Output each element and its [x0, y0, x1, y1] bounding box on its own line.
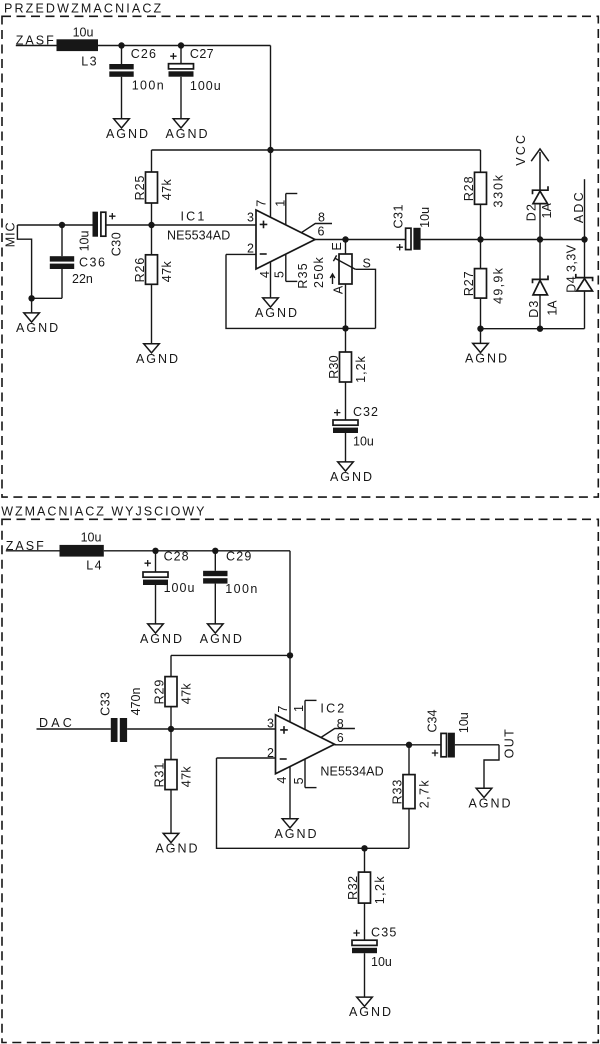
svg-text:IC1: IC1 [181, 209, 207, 223]
svg-text:47k: 47k [180, 683, 194, 705]
svg-text:10u: 10u [371, 955, 392, 969]
IC2 pin 5 [292, 759, 317, 788]
capacitor C32 (electrolytic) [333, 405, 379, 462]
svg-text:10u: 10u [77, 231, 91, 252]
svg-text:22n: 22n [72, 272, 93, 286]
ground AGND under MIC [16, 313, 60, 335]
svg-text:47k: 47k [160, 178, 174, 200]
svg-text:D2: D2 [524, 203, 538, 221]
wire [121, 77, 123, 119]
capacitor C29 [203, 550, 259, 624]
svg-text:8: 8 [337, 717, 344, 731]
svg-text:5: 5 [273, 271, 287, 278]
capacitor C33 [98, 688, 143, 742]
svg-text:10u: 10u [457, 712, 471, 733]
svg-text:R35: R35 [296, 262, 310, 289]
trimmer R35 250k [296, 240, 375, 329]
junction rail / IC2 pin7 [287, 652, 293, 658]
wire ZASF to L3 [16, 45, 57, 47]
svg-text:1: 1 [274, 200, 288, 207]
ground AGND under R27 [465, 343, 509, 365]
svg-text:3: 3 [267, 717, 274, 731]
ground AGND under C32 [330, 462, 374, 484]
wire [539, 295, 541, 329]
wire [285, 254, 287, 281]
svg-text:C26: C26 [131, 47, 157, 61]
svg-text:2: 2 [247, 242, 254, 256]
capacitor C28 (electrolytic) [143, 550, 195, 624]
svg-text:R26: R26 [133, 257, 147, 283]
ground AGND under C28 [140, 624, 184, 646]
resistor R29 [153, 655, 194, 729]
svg-text:6: 6 [318, 225, 325, 239]
wire supply down [289, 551, 291, 656]
svg-text:R30: R30 [327, 355, 341, 379]
wire ZASF to L4 [6, 550, 60, 552]
ground AGND under C35 [349, 997, 393, 1019]
wire OUT jack sleeve [484, 745, 499, 789]
IC1 pin 4 [258, 262, 272, 298]
junction output/R35-E [342, 236, 348, 242]
wire [408, 745, 410, 775]
junction supply rail / IC1 pin7 [267, 147, 273, 153]
svg-text:1,2k: 1,2k [354, 355, 368, 383]
wire [151, 284, 153, 343]
junction D3 anode [537, 326, 543, 332]
wire lower rail [481, 328, 585, 330]
svg-text:C34: C34 [426, 709, 440, 732]
capacitor C36 [50, 225, 107, 298]
resistor R27 [462, 240, 505, 329]
ground AGND under C27 [165, 119, 209, 141]
wire [302, 224, 333, 233]
wire [584, 291, 586, 329]
wire [345, 433, 347, 462]
wire to ground [480, 329, 482, 344]
svg-text:A: A [331, 285, 345, 294]
wire [305, 787, 317, 789]
svg-text:2,7k: 2,7k [418, 779, 432, 808]
resistor R32 [346, 848, 387, 940]
svg-text:C32: C32 [353, 405, 379, 419]
junction R32/feedback [361, 845, 367, 851]
wire [364, 903, 366, 940]
wire IC2 output [335, 744, 442, 746]
wire C34 to OUT [455, 744, 499, 746]
resistor R33 [391, 745, 432, 849]
svg-text:3: 3 [247, 211, 254, 225]
junction at C26 [118, 42, 124, 48]
svg-text:C33: C33 [98, 691, 112, 715]
svg-text:7: 7 [276, 706, 290, 713]
svg-text:C27: C27 [190, 47, 214, 61]
svg-text:ADC: ADC [572, 190, 586, 223]
wire [345, 382, 347, 420]
svg-text:6: 6 [337, 731, 344, 745]
wire [480, 240, 482, 269]
svg-text:10u: 10u [418, 207, 432, 228]
wire [539, 204, 541, 240]
svg-text:NE5534AD: NE5534AD [320, 765, 383, 779]
wire [304, 759, 306, 788]
wire [480, 204, 482, 239]
wire [286, 193, 298, 195]
svg-text:NE5534AD: NE5534AD [167, 229, 230, 243]
wire [584, 240, 586, 278]
svg-text:100u: 100u [190, 79, 222, 93]
capacitor C31 (electrolytic, output coupling) [391, 204, 432, 250]
svg-text:IC2: IC2 [320, 702, 346, 716]
wire [480, 150, 482, 172]
wire [364, 953, 366, 997]
svg-text:100n: 100n [225, 582, 258, 596]
wire horizontal supply rail [152, 149, 481, 151]
wire feedback to S [346, 327, 376, 329]
capacitor C34 (electrolytic, output coupling) [426, 709, 471, 757]
wire [155, 585, 157, 624]
wire [61, 225, 63, 256]
wire [364, 848, 366, 872]
wire C36 to MIC ground [32, 297, 62, 299]
wire feedback loop [226, 254, 346, 328]
wire rail to R29 [171, 654, 290, 656]
wire C30 to IC1 pin3 [106, 224, 256, 226]
capacitor C30 (electrolytic, input coupling) [77, 212, 123, 257]
net stub ADC [572, 179, 586, 239]
ground AGND under R26 [136, 344, 180, 366]
svg-text:47k: 47k [160, 261, 174, 283]
junction R28/R27 [477, 236, 483, 242]
svg-text:10u: 10u [81, 530, 102, 544]
wire [289, 655, 291, 722]
resistor R28 [462, 150, 505, 240]
svg-text:7: 7 [255, 200, 269, 207]
wire L4 to corner [104, 550, 290, 552]
op-amp IC2 NE5534AD [276, 702, 384, 779]
svg-text:D4 3,3V: D4 3,3V [565, 244, 579, 293]
svg-text:250k: 250k [312, 256, 326, 288]
svg-text:C30: C30 [109, 232, 123, 256]
inductor L4 [60, 545, 104, 557]
wire [170, 655, 172, 676]
wire [289, 767, 291, 819]
svg-text:10u: 10u [353, 435, 374, 449]
svg-text:MIC: MIC [3, 222, 17, 248]
wire [180, 46, 182, 64]
svg-text:47k: 47k [180, 766, 194, 788]
svg-text:S: S [363, 256, 371, 270]
svg-text:R33: R33 [391, 779, 405, 805]
wire [408, 809, 410, 849]
wire [304, 700, 306, 729]
capacitor C26 [109, 46, 165, 119]
svg-text:330k: 330k [491, 173, 505, 207]
ground AGND under IC2 [274, 819, 318, 841]
wire [270, 150, 272, 217]
svg-text:4: 4 [275, 777, 289, 784]
wire [180, 77, 182, 119]
wire [170, 707, 172, 729]
svg-text:D3: D3 [527, 299, 541, 317]
dashed frame output amp section [2, 519, 598, 1042]
wire to ground [31, 298, 33, 313]
IC1 pin 1 [274, 194, 298, 226]
svg-text:100n: 100n [132, 79, 165, 93]
diode D2 (schottky) [524, 186, 554, 239]
wire [61, 269, 63, 298]
wire [151, 203, 153, 225]
IC2 pin 1 [292, 700, 317, 729]
wire [584, 179, 586, 239]
svg-text:100u: 100u [164, 581, 196, 595]
wire [170, 729, 172, 760]
wire [285, 194, 287, 226]
wire feedback loop [217, 758, 410, 848]
svg-text:R32: R32 [346, 875, 360, 899]
svg-text:WZMACNIACZ WYJSCIOWY: WZMACNIACZ WYJSCIOWY [1, 505, 206, 519]
svg-text:10u: 10u [73, 25, 94, 39]
resistor R25 [133, 150, 174, 225]
svg-text:49,9k: 49,9k [491, 267, 505, 304]
junction D2/D3 [537, 236, 543, 242]
junction A/R30/feedback [342, 325, 348, 331]
wire to E [345, 240, 347, 255]
junction MIC/C36 [59, 222, 65, 228]
resistor R26 [133, 225, 174, 344]
wire [305, 699, 317, 701]
svg-text:L4: L4 [86, 559, 103, 573]
svg-text:R25: R25 [133, 175, 147, 201]
svg-text:C29: C29 [226, 550, 253, 564]
IC1 pin 7 [255, 150, 271, 217]
wire IC1 output [315, 239, 406, 241]
wire wiper S [355, 269, 375, 328]
wire C31 to ADC node [421, 239, 585, 241]
resistor R30 [327, 328, 368, 420]
zener diode D4 3,3V [565, 240, 593, 329]
svg-text:C31: C31 [391, 204, 405, 228]
capacitor C35 (electrolytic) [352, 925, 398, 997]
wire L3 to corner (supply rail) [98, 45, 271, 47]
svg-text:1: 1 [292, 705, 306, 712]
wire [270, 262, 272, 298]
wire IC1 pin2 [226, 253, 256, 255]
svg-text:R27: R27 [462, 271, 476, 297]
wire [345, 328, 347, 352]
op-amp IC1 NE5534AD [167, 209, 315, 269]
IC2 pin 8 [321, 717, 355, 738]
wire [155, 551, 157, 572]
svg-text:R29: R29 [153, 679, 167, 705]
ground AGND under OUT [468, 788, 512, 810]
ground AGND under IC1 [255, 298, 299, 320]
connector OUT [484, 728, 516, 788]
svg-text:C36: C36 [79, 256, 106, 270]
IC2 pin 4 [275, 767, 290, 819]
wire MIC signal [17, 224, 92, 226]
svg-text:VCC: VCC [514, 133, 528, 166]
svg-text:1A: 1A [540, 202, 554, 218]
wire C33 to IC2 pin3 [127, 728, 275, 730]
svg-text:C35: C35 [371, 925, 398, 939]
junction at C29 [212, 548, 218, 554]
svg-text:8: 8 [318, 210, 325, 224]
junction output/R33 [406, 742, 412, 748]
wire [170, 790, 172, 834]
inductor L3 [57, 39, 99, 51]
wire supply down to rail [270, 46, 272, 151]
svg-text:E: E [330, 242, 344, 250]
wire [480, 298, 482, 329]
wire [151, 150, 153, 172]
svg-text:DAC: DAC [39, 716, 75, 730]
wire MIC jack sleeve [17, 225, 31, 298]
ground AGND under R31 [155, 833, 199, 855]
junction at C28 [152, 548, 158, 554]
junction ADC/D4 [581, 236, 587, 242]
capacitor C27 (electrolytic) [169, 46, 222, 119]
ground AGND under C29 [200, 624, 244, 646]
dashed frame preamp section [2, 16, 598, 497]
IC2 pin 7 [276, 655, 290, 722]
wire DAC to C33 [37, 728, 111, 730]
wire [214, 584, 216, 624]
IC1 pin 8 [302, 210, 333, 232]
svg-text:OUT: OUT [502, 728, 516, 759]
wire [121, 46, 123, 65]
svg-text:4: 4 [258, 271, 272, 278]
ground AGND under C26 [106, 119, 150, 141]
wire [151, 225, 153, 255]
wire [214, 551, 216, 571]
wire [539, 240, 541, 280]
junction R29/R31/pin3 [168, 726, 174, 732]
svg-text:R31: R31 [153, 762, 167, 788]
svg-text:1,2k: 1,2k [373, 875, 387, 904]
svg-text:R28: R28 [462, 175, 476, 201]
wire IC2 pin2 [217, 757, 276, 759]
svg-text:470n: 470n [129, 688, 143, 716]
junction R27/ground [477, 326, 483, 332]
junction R25/R26/pin3 [148, 222, 154, 228]
svg-text:PRZEDWZMACNIACZ: PRZEDWZMACNIACZ [4, 1, 163, 15]
svg-text:C28: C28 [164, 550, 190, 564]
wire [321, 729, 355, 738]
diode D3 (schottky) [527, 240, 559, 329]
IC1 pin 5 [273, 254, 298, 281]
wire from A [345, 284, 347, 328]
junction MIC ground [28, 295, 34, 301]
resistor R31 [153, 729, 194, 833]
svg-text:1A: 1A [545, 300, 559, 316]
svg-text:L3: L3 [81, 55, 98, 69]
svg-text:5: 5 [292, 777, 306, 784]
junction at C27 [178, 42, 184, 48]
wire [286, 280, 298, 282]
connector MIC [3, 222, 31, 299]
power symbol VCC [514, 133, 549, 191]
